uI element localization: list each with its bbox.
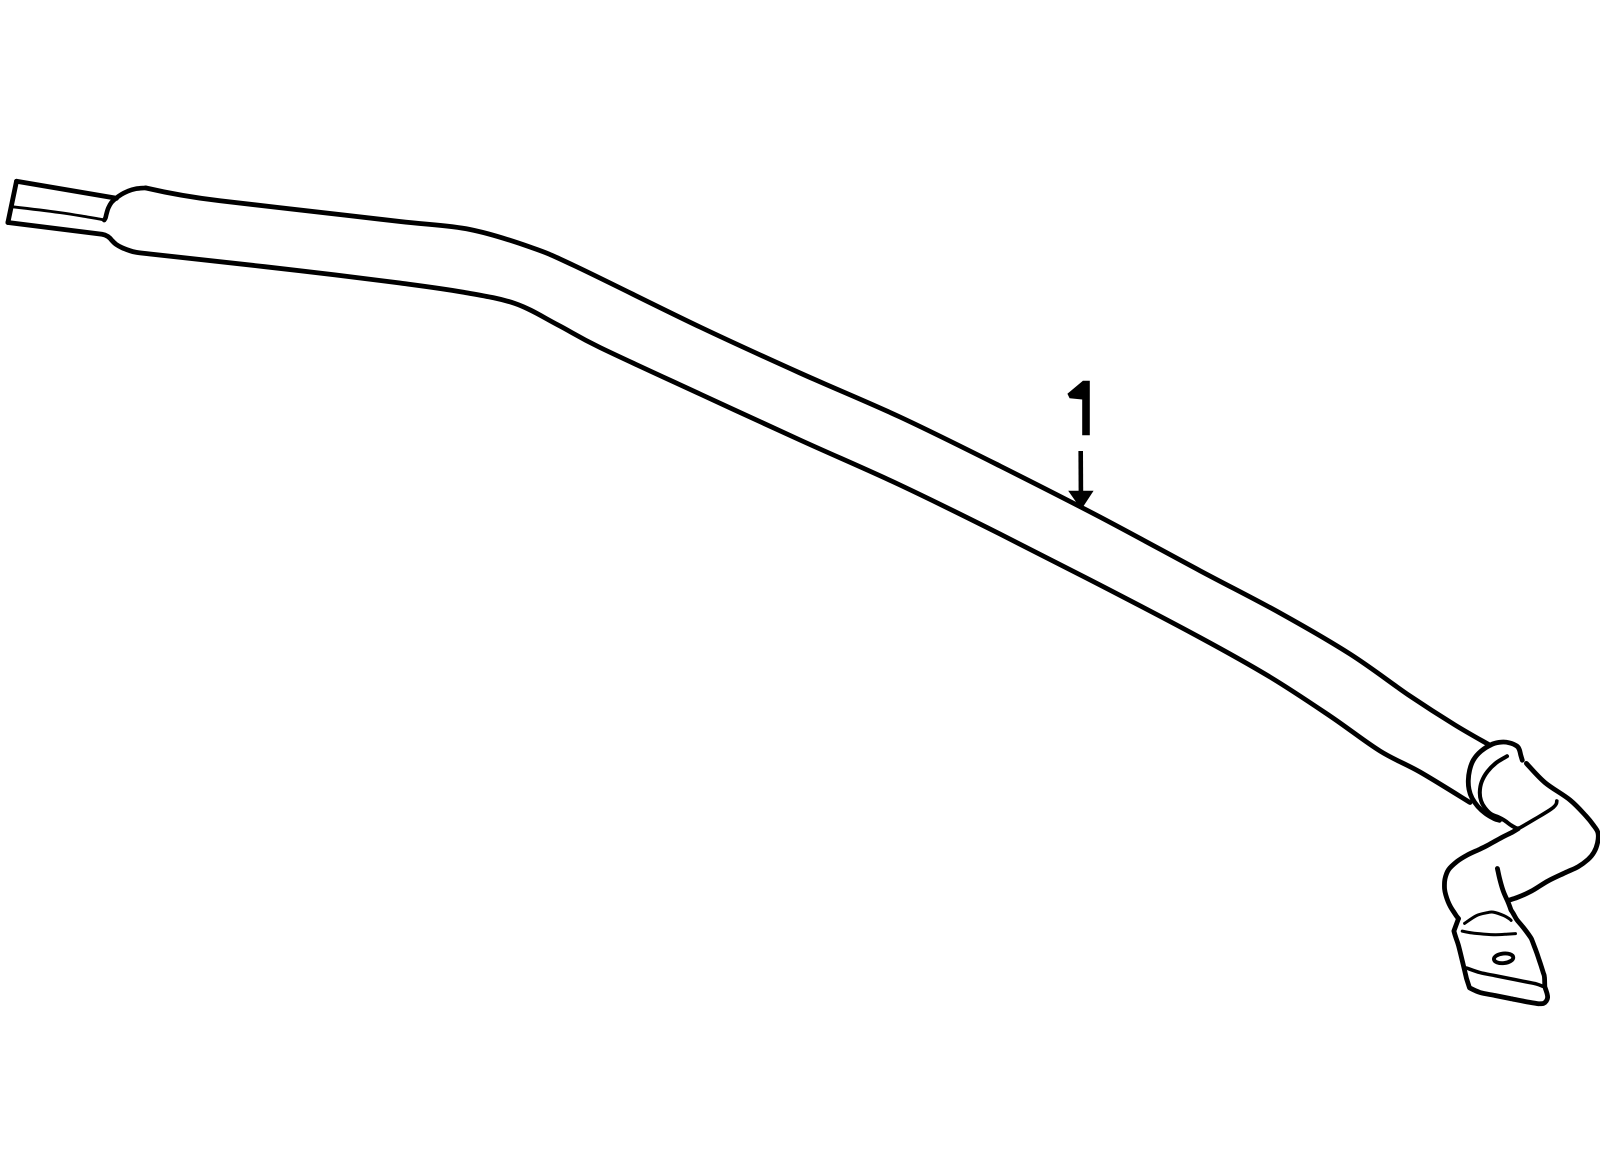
callout arrow head (1068, 491, 1093, 510)
bracket plate thickness line (1467, 968, 1543, 986)
bushing collar outer rim (1468, 742, 1522, 820)
bracket bolt hole (1493, 953, 1513, 965)
bushing collar inner rim and tube exit bottom edge (1480, 756, 1518, 829)
bracket upper crease (1465, 912, 1512, 924)
flat tang left end edge (8, 181, 17, 222)
callout label 1 (drawn glyph) (1067, 381, 1089, 435)
flat tang top edge (17, 181, 117, 198)
mounting bracket outline (1454, 869, 1548, 1004)
S-bend outer silhouette (first elbow) (1509, 763, 1599, 900)
lower arm top edge around second bend (1444, 829, 1518, 919)
callout arrow shaft (1078, 451, 1083, 491)
flat tang middle crease line (13, 207, 103, 220)
stabilizer bar tube bottom edge (tang bottom through cap bottom to collar) (8, 223, 1470, 803)
bracket lower crease (1462, 931, 1515, 935)
elbow inner cusp line (1518, 801, 1557, 829)
tube left cap arc (104, 188, 145, 220)
stabilizer bar tube top edge (146, 188, 1491, 745)
